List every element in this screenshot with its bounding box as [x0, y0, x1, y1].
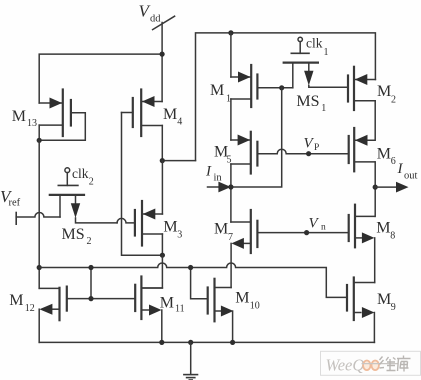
- svg-text:M: M: [377, 146, 391, 163]
- svg-text:7: 7: [228, 232, 233, 243]
- svg-text:in: in: [214, 173, 223, 184]
- wire: M5 drain to Iin node to M7 drain: [230, 164, 232, 222]
- transistor M9 (NMOS): [347, 278, 375, 343]
- Vref input terminal: [16, 213, 60, 225]
- svg-text:3: 3: [177, 230, 182, 241]
- switch transistor MS1: [284, 37, 348, 88]
- wire: M12/M11 gate line with rail tap: [67, 268, 135, 299]
- svg-text:P: P: [314, 143, 319, 153]
- wire: rail drop to M1 source: [230, 33, 232, 77]
- wire: M4 gate down to M3 drain node (hops over MS2 output line): [122, 113, 163, 256]
- svg-text:I: I: [397, 161, 404, 177]
- wire: top-right rail (M4 drain net): [196, 33, 376, 161]
- node: Iin junction dot: [228, 184, 233, 189]
- node Vn dot: [304, 230, 309, 235]
- transistor M11 (NMOS): [135, 277, 162, 343]
- node: M11 source dot: [159, 340, 164, 345]
- svg-text:11: 11: [175, 303, 185, 314]
- svg-text:M: M: [210, 82, 224, 99]
- wire: M3 source up to M4 drain node: [161, 161, 163, 214]
- wire: left column M13 drain down to bias rail and M12 drain: [38, 140, 40, 288]
- transistor M4 (PMOS): [122, 90, 163, 137]
- node: M10 gate tap dot: [188, 265, 193, 270]
- svg-text:V: V: [309, 216, 320, 232]
- wire: M6 drain to Iout node to M8 drain: [374, 162, 376, 217]
- svg-text:1: 1: [324, 47, 329, 58]
- svg-text:8: 8: [390, 231, 395, 242]
- wire: bias rail (gates of M12/M11/M10/M9, hops over M3 and M7 columns): [39, 263, 347, 297]
- Iin input arrow: [208, 182, 231, 193]
- svg-text:ref: ref: [9, 198, 21, 209]
- svg-text:M: M: [163, 106, 177, 123]
- switch transistor MS2: [50, 168, 117, 223]
- svg-text:13: 13: [27, 118, 37, 129]
- wire: Vdd rail to M13/M4 sources: [39, 54, 162, 103]
- node: left column / bias rail dot: [37, 265, 42, 270]
- node: gate line tap dots: [88, 265, 93, 270]
- transistor M1 (PMOS): [231, 65, 293, 107]
- wire: M7 source down to M10 drain (hops over bias rail): [230, 243, 232, 287]
- node: Vdd junction dot: [160, 52, 165, 57]
- wire: M4 drain to right rail riser: [162, 126, 195, 161]
- svg-text:10: 10: [250, 300, 260, 311]
- svg-text:M: M: [377, 83, 391, 100]
- transistor M12 (NMOS): [39, 287, 67, 343]
- wire: M8 source down to M9 drain: [374, 238, 376, 283]
- transistor M10 (NMOS): [191, 268, 234, 343]
- node: rail / M1-column junction dot: [228, 30, 233, 35]
- wire: M2 drain to M6 source: [374, 101, 376, 140]
- node: M10 source dot: [230, 340, 235, 345]
- svg-text:6: 6: [391, 156, 396, 167]
- svg-text:2: 2: [89, 177, 94, 188]
- svg-text:M: M: [163, 218, 177, 235]
- wire: mirror node down to M11 drain (hops over bias rail): [141, 255, 162, 288]
- transistor M7 (NMOS): [231, 210, 258, 253]
- transistor M6 (PMOS): [349, 128, 375, 171]
- svg-text:n: n: [321, 223, 326, 233]
- node: M1 gate / MS1 junction dot: [279, 85, 284, 90]
- svg-text:M: M: [214, 221, 228, 238]
- wire: Vn line M7 gate to M8 gate: [257, 232, 348, 234]
- wire: Vp line M5 gate to M6 gate (hops over node-A wire): [257, 149, 348, 154]
- svg-text:12: 12: [25, 303, 35, 314]
- transistor M8 (NMOS): [349, 205, 375, 248]
- node: ground tap dot: [188, 340, 193, 345]
- svg-text:2: 2: [391, 94, 396, 105]
- node: M3 drain / M4 gate / M11 drain dot: [160, 253, 165, 258]
- svg-text:M: M: [235, 289, 249, 306]
- node Vp dot: [306, 151, 311, 156]
- svg-text:1: 1: [321, 103, 326, 114]
- svg-text:dd: dd: [150, 13, 161, 24]
- svg-text:9: 9: [391, 302, 396, 313]
- svg-text:M: M: [376, 220, 390, 237]
- svg-text:WeeQ: WeeQ: [326, 355, 365, 374]
- svg-text:MS: MS: [62, 226, 85, 243]
- node: M4 drain / M3 source junction dot: [160, 158, 165, 163]
- ground symbol: [184, 342, 198, 380]
- svg-text:M: M: [9, 292, 23, 309]
- Iout output arrow: [375, 182, 408, 193]
- svg-text:clk: clk: [72, 166, 89, 181]
- node: M13 gate-drain tie dot: [37, 138, 42, 143]
- svg-text:MS: MS: [296, 93, 319, 110]
- svg-text:M: M: [12, 108, 26, 125]
- svg-text:4: 4: [177, 117, 182, 128]
- transistor M5 (PMOS): [231, 132, 258, 174]
- watermark WeeQoo box: [321, 351, 421, 375]
- svg-text:I: I: [205, 164, 212, 180]
- node: Iout junction dot: [373, 185, 378, 190]
- svg-text:2: 2: [87, 236, 92, 247]
- svg-text:out: out: [404, 171, 418, 182]
- svg-text:V: V: [304, 136, 315, 152]
- wire: M3 drain down to mirror node: [161, 234, 163, 255]
- svg-text:clk: clk: [306, 36, 323, 51]
- wire: node A down to Iin line (hops over Vp line): [231, 88, 282, 187]
- transistor M13 (diode-connected PMOS): [39, 90, 85, 141]
- svg-text:M: M: [160, 295, 174, 312]
- wire: M1 drain to M5 source: [230, 99, 232, 140]
- Vdd supply symbol: [153, 16, 175, 54]
- transistor M3 (PMOS cascode): [135, 201, 163, 246]
- wire: bottom ground rail: [39, 341, 374, 343]
- wire: MS2 output to M3 gate (hops over M4-gate wire): [117, 218, 135, 223]
- svg-text:M: M: [377, 291, 391, 308]
- transistor M2 (PMOS): [348, 67, 375, 110]
